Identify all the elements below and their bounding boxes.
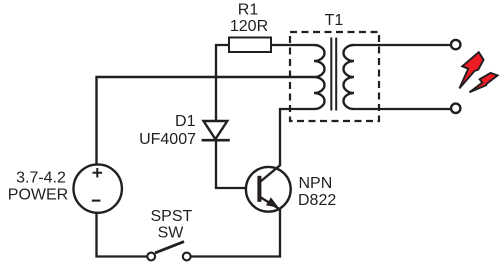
svg-text:T1: T1: [325, 12, 344, 29]
battery plus sign: [93, 168, 103, 178]
wire secondary bottom to terminal: [354, 108, 451, 110]
wire diode cathode to base: [216, 140, 258, 188]
wire primary bottom to collector: [280, 109, 314, 166]
svg-text:R1: R1: [238, 2, 259, 19]
svg-text:SW: SW: [158, 225, 185, 242]
wire secondary top to terminal: [354, 44, 451, 46]
battery minus sign: [92, 200, 101, 202]
switch SW left contact: [147, 253, 155, 261]
wire switch to power minus: [97, 214, 148, 257]
switch SW lever: [155, 242, 184, 253]
transistor Q1 circle: [246, 167, 291, 212]
svg-text:3.7-4.2: 3.7-4.2: [16, 170, 66, 187]
diode D1: [202, 121, 230, 140]
svg-text:SPST: SPST: [151, 208, 193, 225]
svg-text:POWER: POWER: [8, 187, 68, 204]
switch SW right contact: [183, 253, 191, 261]
transistor emitter line: [261, 197, 281, 210]
wire emitter to bottom rail: [191, 209, 280, 257]
svg-text:UF4007: UF4007: [139, 131, 196, 148]
svg-text:D822: D822: [298, 192, 336, 209]
svg-text:120R: 120R: [230, 18, 268, 35]
wire power plus to primary center tap: [97, 77, 315, 164]
battery power source circle: [74, 164, 122, 212]
terminal top output: [451, 40, 460, 49]
transformer secondary winding: [344, 45, 355, 109]
resistor R1: [229, 38, 271, 53]
spark bolt small: [470, 73, 498, 92]
transistor emitter arrow: [266, 197, 279, 207]
transformer T1 dashed box: [290, 32, 379, 121]
transformer core: [331, 38, 336, 111]
wire R1 right to primary top: [271, 44, 314, 46]
transistor collector line: [261, 165, 281, 181]
terminal bottom output: [451, 104, 460, 113]
svg-text:D1: D1: [175, 113, 196, 130]
wire R1 left to diode anode: [216, 45, 229, 121]
transformer primary winding: [314, 45, 325, 109]
spark bolt big: [459, 52, 483, 88]
transistor base bar: [257, 176, 261, 202]
svg-text:NPN: NPN: [299, 175, 333, 192]
